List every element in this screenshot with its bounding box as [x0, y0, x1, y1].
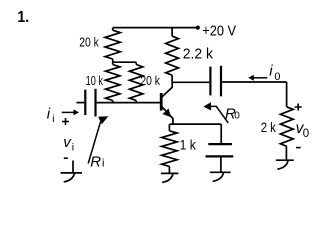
svg-text:0: 0: [303, 128, 309, 140]
svg-text:+20 V: +20 V: [202, 23, 236, 39]
svg-text:20 k: 20 k: [140, 74, 160, 88]
svg-text:R: R: [90, 153, 101, 170]
svg-text:1.: 1.: [17, 9, 29, 26]
svg-text:i: i: [102, 158, 104, 170]
svg-text:2.2 k: 2.2 k: [183, 46, 214, 62]
svg-text:i: i: [52, 113, 54, 125]
svg-text:20 k: 20 k: [79, 35, 99, 49]
svg-text:i: i: [72, 141, 74, 153]
svg-text:0: 0: [274, 71, 280, 83]
svg-text:1 k: 1 k: [180, 137, 197, 153]
svg-text:0: 0: [234, 111, 240, 122]
svg-text:2 k: 2 k: [261, 119, 277, 135]
svg-text:10 k: 10 k: [86, 74, 104, 88]
